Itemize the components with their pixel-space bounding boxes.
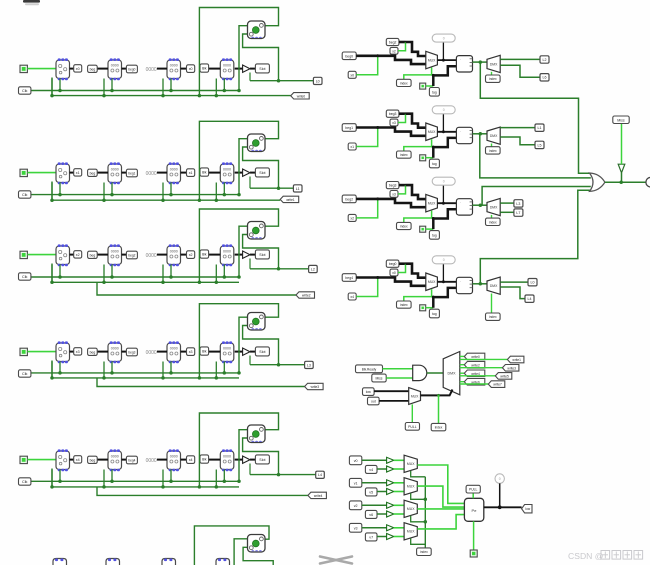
pin Clk row4 bbox=[19, 478, 31, 485]
wire L2 stub bbox=[249, 259, 251, 269]
tunnel index2 blk1 bbox=[486, 75, 501, 82]
bus stair2 blk1 bbox=[406, 42, 426, 56]
wire probe blk4 bbox=[442, 264, 444, 282]
tunnel x0 blk4 bbox=[390, 269, 398, 276]
pin L4 blk4 bbox=[525, 295, 534, 302]
pin L6 blk1 bbox=[540, 74, 549, 81]
wire dice left row3 bbox=[239, 317, 248, 373]
junction row1 r2a bbox=[161, 198, 165, 202]
wire stub row3 r3a bbox=[215, 362, 217, 378]
wire L0 stub bbox=[249, 73, 251, 81]
pin L0 blk4 bbox=[528, 279, 537, 286]
svg-text:0000: 0000 bbox=[146, 458, 157, 464]
svg-text:v2: v2 bbox=[354, 504, 358, 508]
svg-text:0000: 0000 bbox=[170, 167, 178, 171]
wire bufv1-mux bbox=[394, 482, 404, 484]
svg-text:x2: x2 bbox=[189, 253, 193, 257]
tunnel x1b bbox=[187, 169, 195, 177]
bus r1-beg0 bbox=[122, 68, 127, 70]
svg-text:Blk: Blk bbox=[202, 67, 207, 71]
svg-text:L0: L0 bbox=[531, 281, 535, 285]
svg-text:beg0: beg0 bbox=[389, 262, 397, 266]
tunnel beg row4 bbox=[88, 456, 98, 463]
junction row1 r3b bbox=[223, 193, 227, 197]
dice subcircuit row4 bbox=[248, 425, 266, 443]
buffer row2 bbox=[243, 251, 250, 258]
pin tag blk3 bbox=[420, 226, 426, 232]
bus muxout blk2 bbox=[437, 131, 456, 133]
tunnel index2 blk4 bbox=[486, 313, 501, 320]
svg-text:x2: x2 bbox=[392, 49, 396, 53]
tunnel index pe bbox=[417, 548, 432, 556]
net clk row4 bbox=[31, 480, 240, 482]
wire dice left row2 bbox=[239, 226, 248, 277]
wire compout blk2 bbox=[473, 133, 488, 135]
tunnel write4 bbox=[308, 492, 327, 498]
wire en corner row3 bbox=[51, 361, 53, 378]
register r40 bbox=[56, 449, 70, 471]
tunnel write3 bbox=[305, 383, 324, 389]
svg-text:beg4: beg4 bbox=[128, 459, 135, 463]
tunnel v0 bbox=[349, 456, 361, 465]
svg-text:Miss: Miss bbox=[376, 377, 383, 381]
wire dice bottom row2 bbox=[243, 235, 279, 269]
wire write7 bbox=[460, 383, 489, 385]
svg-text:v3: v3 bbox=[354, 526, 358, 530]
tunnel x3 bbox=[74, 348, 82, 355]
wire stub row1 r1a bbox=[103, 183, 105, 201]
wire write1 bbox=[460, 358, 508, 360]
bus r3-buf row4 bbox=[235, 459, 243, 461]
wire sel mux3 bbox=[411, 538, 426, 544]
svg-text:beg2: beg2 bbox=[389, 41, 397, 45]
pin tag blk1 bbox=[420, 83, 426, 89]
junction row1 r1a bbox=[102, 198, 106, 202]
register r13 bbox=[220, 162, 234, 184]
wire x1 blk2 bbox=[356, 128, 378, 147]
junction row1 r1b bbox=[110, 193, 114, 197]
bus stair2 blk2 bbox=[406, 114, 426, 128]
wire to write4 bbox=[97, 487, 308, 496]
svg-text:index: index bbox=[420, 550, 428, 554]
tunnel Blk row1 bbox=[200, 168, 209, 176]
probe blk2 bbox=[432, 106, 455, 114]
bus muxout blk4 bbox=[437, 281, 456, 283]
priority encoder Pe bbox=[464, 498, 483, 521]
bus stair2 blk4 bbox=[406, 264, 426, 278]
junction dice loop row1 bbox=[198, 198, 202, 202]
net clk row1 bbox=[31, 194, 240, 196]
junction a blk4 bbox=[376, 276, 379, 279]
junction row3 r3b bbox=[223, 371, 227, 375]
wire write4 bbox=[460, 372, 465, 374]
artifact scissors bbox=[320, 557, 352, 564]
svg-text:Slot: Slot bbox=[259, 350, 265, 354]
bus r1-beg4 bbox=[122, 459, 127, 461]
tunnel index sel bbox=[431, 423, 446, 430]
tunnel v2 bbox=[349, 501, 361, 510]
wire compout blk4 bbox=[473, 283, 488, 285]
junction row4 r0b bbox=[58, 480, 62, 484]
tunnel v5 bbox=[365, 488, 377, 496]
junction row4 r1b bbox=[110, 480, 114, 484]
tunnel beg2 bbox=[126, 251, 137, 259]
junction sel1 bbox=[424, 498, 428, 502]
tunnel x0b bbox=[187, 65, 195, 73]
svg-text:DMX: DMX bbox=[490, 62, 498, 66]
demux blk1 bbox=[487, 55, 500, 72]
register r03 bbox=[220, 58, 234, 80]
svg-text:0000: 0000 bbox=[170, 346, 178, 350]
bus beg-r1 row2 bbox=[97, 254, 108, 256]
pin x1 input bbox=[20, 169, 27, 176]
junction row2 r2a bbox=[161, 281, 165, 285]
svg-text:PULL: PULL bbox=[469, 488, 478, 492]
svg-text:0000: 0000 bbox=[111, 249, 119, 253]
svg-text:beg: beg bbox=[90, 253, 96, 257]
wire dmx select blk4 bbox=[491, 294, 493, 314]
junction L1 bbox=[277, 186, 281, 190]
wire L5 blk2 bbox=[500, 137, 535, 145]
wire and-dmx bbox=[427, 372, 443, 374]
svg-text:tag: tag bbox=[432, 233, 437, 237]
wire L7 blk3 bbox=[500, 211, 514, 213]
tunnel beg row2 bbox=[88, 251, 98, 258]
svg-text:beg3: beg3 bbox=[389, 184, 397, 188]
wire to write3 bbox=[97, 378, 305, 387]
bus blk-r3 row2 bbox=[209, 254, 221, 256]
svg-text:0000: 0000 bbox=[146, 67, 157, 73]
wire stub row3 r3b bbox=[223, 362, 225, 373]
tunnel write7 bbox=[488, 381, 505, 388]
tunnel write0 bbox=[291, 93, 310, 99]
wire tagpin blk4 bbox=[426, 307, 434, 309]
bus buf-slot row4 bbox=[250, 459, 255, 461]
wire stub row2 r0b bbox=[59, 265, 61, 278]
bus buf-slot row0 bbox=[250, 68, 255, 70]
wire stub row2 r1a bbox=[103, 265, 105, 283]
svg-text:x4: x4 bbox=[350, 295, 354, 299]
svg-text:write3: write3 bbox=[507, 366, 516, 370]
demux DMX8 bbox=[443, 352, 460, 395]
wire compout blk1 bbox=[473, 61, 488, 63]
svg-text:0000: 0000 bbox=[223, 63, 231, 67]
junction row2 r3a bbox=[215, 281, 219, 285]
tunnel x4 bbox=[74, 456, 82, 463]
pin tag blk2 bbox=[420, 155, 426, 161]
bus beg-r1 row1 bbox=[97, 172, 108, 174]
tunnel beg3 blk3 bbox=[386, 182, 399, 189]
junction L0 bbox=[277, 79, 281, 83]
buffer v0 bbox=[387, 457, 394, 463]
bus out-mux bbox=[379, 400, 409, 402]
dice subcircuit row1 bbox=[248, 134, 266, 152]
pin x2 input bbox=[20, 251, 27, 258]
wire dice bottom row1 bbox=[243, 147, 279, 188]
bus r0-x1 bbox=[70, 172, 74, 174]
wire tagpin blk1 bbox=[426, 85, 434, 87]
demux blk2 bbox=[487, 127, 500, 144]
pin Clk row0 bbox=[19, 87, 31, 94]
junction probe blk4 bbox=[442, 280, 445, 283]
register r42 bbox=[167, 449, 181, 471]
svg-text:x3: x3 bbox=[76, 350, 80, 354]
comparator blk3 bbox=[456, 199, 472, 215]
wire sel mux2 bbox=[411, 516, 426, 522]
bus const-r2 row3 bbox=[157, 351, 167, 353]
demux blk4 bbox=[487, 277, 500, 294]
tunnel v6 bbox=[365, 510, 377, 518]
svg-text:L1: L1 bbox=[538, 126, 542, 130]
tunnel beg2 blk3 bbox=[342, 195, 356, 203]
buffer row4 bbox=[243, 456, 250, 463]
junction row3 r2b bbox=[169, 371, 173, 375]
svg-text:v4: v4 bbox=[369, 468, 373, 472]
tunnel write6 bbox=[464, 379, 485, 386]
svg-text:beg0: beg0 bbox=[128, 68, 135, 72]
register r33 bbox=[220, 341, 234, 363]
wire bufv0-mux bbox=[394, 459, 404, 461]
junction row4 r3a bbox=[215, 485, 219, 489]
tunnel beg row0 bbox=[88, 65, 98, 72]
bus low-mux bbox=[374, 390, 409, 392]
mux sel bbox=[409, 388, 421, 405]
net en row4 bbox=[52, 486, 239, 488]
tunnel index2 blk2 bbox=[486, 147, 501, 154]
svg-text:MUX: MUX bbox=[407, 485, 415, 489]
tunnel write0 bbox=[464, 353, 485, 360]
tunnel index1 blk1 bbox=[397, 79, 412, 86]
svg-text:0000: 0000 bbox=[223, 167, 231, 171]
wire stub row3 r1b bbox=[111, 362, 113, 373]
wire stub row1 r3b bbox=[223, 183, 225, 195]
wire stub row4 r3b bbox=[223, 470, 225, 482]
mux v1 bbox=[404, 478, 417, 495]
junction row3 r0a bbox=[50, 376, 54, 380]
wire pull-pe bbox=[472, 493, 474, 498]
svg-text:Miss: Miss bbox=[617, 118, 625, 122]
junction a blk2 bbox=[376, 126, 379, 129]
pin pe out bbox=[470, 550, 477, 557]
wire probe blk3 bbox=[442, 185, 444, 203]
svg-text:0000: 0000 bbox=[146, 253, 157, 259]
svg-text:DMX: DMX bbox=[490, 205, 498, 209]
wire dmx select blk1 bbox=[491, 72, 493, 75]
svg-text:x1: x1 bbox=[350, 145, 354, 149]
tunnel Miss top bbox=[613, 116, 629, 124]
wire m3-pe bbox=[417, 508, 464, 510]
tunnel tag blk3 bbox=[429, 231, 439, 240]
svg-text:beg0: beg0 bbox=[345, 54, 353, 58]
junction dice left row2 bbox=[237, 275, 241, 279]
bus muxout blk3 bbox=[437, 202, 456, 204]
wire stub row4 r1b bbox=[111, 470, 113, 482]
tunnel Blk row2 bbox=[200, 250, 209, 258]
junction row4 r2a bbox=[161, 485, 165, 489]
svg-text:index: index bbox=[400, 81, 408, 85]
wire m4-pe bbox=[417, 515, 464, 529]
svg-text:L3: L3 bbox=[307, 363, 311, 367]
wire bufv7-mux bbox=[394, 536, 404, 538]
register r50 (cut) bbox=[53, 559, 67, 565]
junction miss bbox=[619, 180, 623, 184]
pin L1 bbox=[293, 185, 302, 192]
wire x2 blk3 bbox=[356, 199, 378, 218]
bus blk-r3 row1 bbox=[209, 172, 221, 174]
bus tag blk4 bbox=[433, 288, 456, 308]
tunnel v1 bbox=[349, 478, 361, 487]
bus beg-r1 row4 bbox=[97, 459, 108, 461]
bus r3-buf row0 bbox=[235, 68, 243, 70]
svg-text:write0: write0 bbox=[471, 355, 480, 359]
junction dice left row0 bbox=[237, 89, 241, 93]
svg-text:x0: x0 bbox=[189, 67, 193, 71]
tunnel write3 bbox=[502, 365, 519, 372]
tunnel v7 bbox=[365, 533, 377, 541]
svg-text:out: out bbox=[371, 400, 376, 404]
tunnel x2 bbox=[74, 251, 82, 258]
svg-text:x2: x2 bbox=[350, 216, 354, 220]
wire dmx select blk3 bbox=[491, 215, 493, 218]
svg-text:index: index bbox=[489, 149, 497, 153]
svg-text:0000: 0000 bbox=[223, 346, 231, 350]
svg-text:beg2: beg2 bbox=[128, 254, 135, 258]
wire pe-down bbox=[473, 521, 475, 550]
svg-text:beg2: beg2 bbox=[345, 197, 353, 201]
wire stub row0 r3a bbox=[215, 79, 217, 96]
tunnel beg4 bbox=[126, 456, 137, 464]
svg-text:x4: x4 bbox=[189, 458, 193, 462]
svg-text:x1: x1 bbox=[76, 171, 80, 175]
tunnel x1 bbox=[74, 169, 82, 176]
pin L3 blk3 bbox=[514, 200, 523, 207]
tunnel beg3 blk2 bbox=[386, 110, 399, 117]
svg-text:x0: x0 bbox=[350, 73, 354, 77]
net clk row3 bbox=[31, 372, 240, 374]
buffer row0 bbox=[243, 65, 250, 72]
pin L2 bbox=[309, 265, 318, 272]
svg-text:Clk: Clk bbox=[22, 480, 28, 484]
svg-text:L4: L4 bbox=[318, 473, 322, 477]
svg-text:L2: L2 bbox=[543, 58, 547, 62]
svg-text:index: index bbox=[435, 426, 443, 430]
junction probe blk3 bbox=[442, 202, 445, 205]
tunnel x0 bbox=[74, 65, 82, 72]
mux blk3 bbox=[426, 194, 438, 212]
pin L3 bbox=[305, 361, 314, 368]
junction dice loop row2 bbox=[198, 281, 202, 285]
svg-text:0000: 0000 bbox=[111, 167, 119, 171]
bus r3-buf row3 bbox=[235, 351, 243, 353]
bus beg3 blk2 bbox=[399, 112, 406, 115]
svg-text:L1: L1 bbox=[296, 187, 300, 191]
svg-text:DMX: DMX bbox=[490, 134, 498, 138]
svg-text:0000: 0000 bbox=[223, 454, 231, 458]
wire stub row3 r2b bbox=[170, 362, 172, 373]
svg-text:x1: x1 bbox=[189, 171, 193, 175]
tunnel beg0 blk1 bbox=[342, 52, 356, 60]
wire stub row2 r2b bbox=[170, 265, 172, 278]
wire L3 blk3 bbox=[500, 202, 514, 204]
bus stair1 blk3 bbox=[378, 199, 426, 207]
junction row2 r1a bbox=[102, 281, 106, 285]
svg-text:Clk: Clk bbox=[22, 193, 28, 197]
bus const-r2 row2 bbox=[157, 254, 167, 256]
comparator blk1 bbox=[456, 56, 472, 72]
svg-text:MUX: MUX bbox=[428, 202, 436, 206]
dice subcircuit row3 bbox=[248, 313, 266, 331]
bus blk-r3 row3 bbox=[209, 351, 221, 353]
svg-text:Blk: Blk bbox=[202, 458, 207, 462]
net blk4-or bbox=[480, 190, 591, 283]
wire dice bottom row4 bbox=[243, 438, 279, 475]
svg-text:tag: tag bbox=[432, 312, 437, 316]
bus const-r2 row1 bbox=[157, 172, 167, 174]
tunnel beg3 bbox=[126, 348, 137, 356]
wire L1 bbox=[250, 187, 293, 189]
svg-text:0: 0 bbox=[443, 180, 445, 184]
junction L2 bbox=[277, 267, 281, 271]
bus beg2 blk3 bbox=[356, 198, 378, 201]
wire stub row0 r1b bbox=[111, 79, 113, 91]
pin L7 blk3 bbox=[514, 209, 523, 216]
wire L3 bbox=[250, 364, 305, 366]
register r02 bbox=[167, 58, 181, 80]
register r10 bbox=[56, 162, 70, 184]
register r23 bbox=[220, 244, 234, 266]
svg-text:L4: L4 bbox=[528, 297, 532, 301]
wire compout blk3 bbox=[473, 204, 488, 206]
mux v3 bbox=[404, 523, 417, 540]
wire stub row3 r0b bbox=[59, 362, 61, 373]
bus muxout blk1 bbox=[437, 59, 456, 61]
bus beg2 blk1 bbox=[399, 41, 406, 44]
bus stair1 blk4 bbox=[378, 278, 426, 286]
wire L2 bbox=[250, 268, 309, 270]
wire or-out bbox=[605, 181, 646, 183]
tunnel Miss bbox=[372, 374, 386, 382]
wire x4 blk4 bbox=[356, 278, 378, 297]
svg-text:beg1: beg1 bbox=[128, 172, 135, 176]
bus beg0 blk1 bbox=[356, 54, 378, 57]
bus beg4 blk4 bbox=[356, 276, 378, 279]
probe blk4 bbox=[432, 256, 455, 264]
svg-text:Slot: Slot bbox=[259, 458, 265, 462]
svg-text:Slot: Slot bbox=[259, 253, 265, 257]
wire stub row2 r1b bbox=[111, 265, 113, 278]
wire dice loop top row2 bbox=[199, 209, 278, 282]
junction row0 r0b bbox=[58, 89, 62, 93]
bus r2-x2b bbox=[181, 254, 187, 256]
wire stub row0 r1a bbox=[103, 79, 105, 96]
junction L3 bbox=[277, 363, 281, 367]
wire index1 blk2 bbox=[404, 139, 432, 151]
wire index1 blk4 bbox=[404, 289, 432, 301]
svg-text:beg: beg bbox=[90, 458, 96, 462]
svg-text:L5: L5 bbox=[538, 143, 542, 147]
bus r1-beg2 bbox=[122, 254, 127, 256]
svg-text:write2: write2 bbox=[302, 294, 311, 298]
tunnel Blk row4 bbox=[200, 455, 209, 463]
svg-text:0: 0 bbox=[443, 36, 445, 40]
svg-text:0000: 0000 bbox=[170, 63, 178, 67]
tunnel v3 bbox=[349, 523, 361, 532]
register r51 (cut) bbox=[106, 559, 120, 565]
tunnel tag blk2 bbox=[429, 159, 439, 168]
wire input row4 bbox=[27, 459, 56, 461]
pin Clk row3 bbox=[19, 370, 31, 377]
svg-text:0000: 0000 bbox=[146, 350, 157, 356]
